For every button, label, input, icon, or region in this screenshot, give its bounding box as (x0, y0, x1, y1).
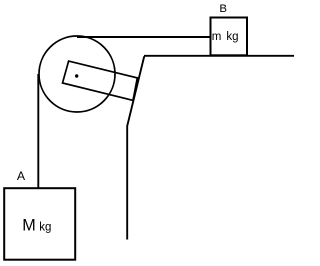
svg-text:m: m (212, 31, 222, 43)
svg-text:B: B (219, 3, 227, 15)
pulley mounting bracket (63, 61, 138, 100)
wire: horizontal rope from pulley top to block B (77, 36, 210, 38)
table edge and leg (127, 56, 144, 239)
svg-text:kg: kg (39, 222, 51, 234)
svg-text:kg: kg (226, 31, 238, 43)
block B (m kg) (211, 18, 248, 56)
table surface line (144, 55, 294, 57)
pulley wheel (39, 36, 115, 112)
block A (M kg) (4, 188, 75, 260)
svg-text:A: A (17, 169, 26, 183)
pulley axle dot (75, 74, 78, 77)
svg-text:M: M (22, 216, 35, 234)
wire: vertical rope from pulley left down to block A (37, 74, 39, 188)
